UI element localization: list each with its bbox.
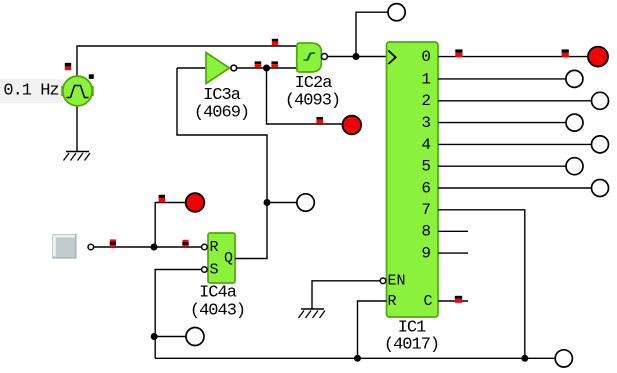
pin label S (IC4a) [210,261,219,278]
wire button to IC4a R [94,246,202,248]
wire IC4a S to bottom rail [155,270,201,359]
wire inverter node to LED D2 [267,68,343,124]
state marker on LED D2 wire [316,117,323,124]
pin label 7 [421,201,431,219]
state marker clock pin [65,63,71,70]
wire IC1 R to bottom rail [358,301,387,358]
wire pin2 to probe [438,100,592,102]
wire C stub [438,300,468,302]
label IC3a [203,86,241,105]
wire Q node to probe [267,202,297,204]
pin label Q (IC4a) [224,250,233,267]
IC4a S bubble [202,267,208,273]
IC4a R bubble [202,244,208,250]
svg-text:1: 1 [421,70,431,88]
svg-text:C: C [423,293,432,310]
wire pin4 to probe [438,143,592,145]
probe pin2 [592,92,609,109]
wire clock bottom to ground [76,106,78,152]
push button S1 [53,235,76,259]
pin label R (IC4a) [210,239,219,256]
pin label 5 [421,158,431,176]
probe pin5 [566,158,583,175]
junction inverter output node [263,65,270,72]
svg-text:R: R [388,293,397,310]
svg-text:IC2a: IC2a [295,74,333,93]
svg-text:IC4a: IC4a [199,284,237,303]
label 0.1 Hz [3,82,58,101]
state marker left of junction [255,61,262,67]
svg-text:(4093): (4093) [285,92,340,111]
pin label 8 [421,223,431,241]
wire pin7 to bottom rail [438,210,525,358]
junction clock node [353,53,360,60]
label highlight background [0,79,63,103]
junction rail pin7 [521,355,528,362]
probe pin4 [592,136,609,153]
NAND schmitt IC2a [297,43,328,72]
svg-text:0.1 Hz: 0.1 Hz [3,82,58,101]
label IC1 [398,319,426,338]
state marker right of junction [271,61,278,67]
state marker pin0 a [455,49,462,57]
pin label C [423,293,432,310]
pin label R [388,293,397,310]
wire S node to probe [155,336,186,338]
svg-text:(4069): (4069) [194,103,249,122]
junction rail R [354,355,361,362]
svg-text:Q: Q [224,250,233,267]
button pin circle [88,244,94,250]
wire node Q-feedback to inverter input [177,68,267,203]
pin label EN [388,273,406,290]
wire pin8 stub [438,230,468,232]
pin label 0 [421,48,431,66]
label (4017) [384,336,439,355]
wire pin6 to probe [438,187,592,189]
LED D2 [343,116,362,135]
probe S node [186,328,204,346]
probe Q [297,194,314,211]
pin label 4 [421,136,431,154]
label IC2a [295,74,333,93]
svg-text:4: 4 [421,136,431,154]
ground (clock) [64,152,91,161]
svg-text:8: 8 [421,223,431,241]
state marker button wire b [182,240,188,247]
wire clock top to IC2a input A [77,46,297,76]
probe pin1 [566,70,583,87]
state marker button wire a [110,239,116,247]
pin label 1 [421,70,431,88]
wire IC2a output to IC1 clock [328,56,387,58]
wire pin0 to LED D1 [438,56,589,58]
wire Q output to node [235,203,267,259]
probe pin6 [592,180,609,197]
junction button node [151,244,158,251]
svg-text:(4043): (4043) [190,302,245,321]
svg-text:2: 2 [421,92,431,110]
junction Q node [264,199,271,206]
pin label 6 [421,179,431,197]
label (4069) [194,103,249,122]
wire pin3 to probe [438,122,566,124]
wire pin9 stub [438,252,468,254]
svg-text:S: S [210,261,219,278]
svg-text:R: R [210,239,219,256]
probe pin (top) [388,4,405,21]
label (4043) [190,302,245,321]
label (4093) [285,92,340,111]
svg-text:IC3a: IC3a [203,86,241,105]
clock source V1 0.1Hz [63,76,93,106]
wire pin1 to probe [438,78,566,80]
wire inverter input stub [177,67,206,69]
svg-text:7: 7 [421,201,431,219]
state marker on clock wire [272,39,278,46]
pin label 2 [421,92,431,110]
svg-text:9: 9 [421,245,431,263]
counter IC1 (4017) [387,42,439,317]
svg-text:5: 5 [421,158,431,176]
probe rail end [555,350,572,367]
wire EN to ground [312,281,380,309]
svg-text:6: 6 [421,179,431,197]
pin label 3 [421,114,431,132]
wire bottom rail [155,357,555,359]
marker black square near clock [89,74,94,79]
wire button node to LED D3 [155,203,186,248]
svg-text:0: 0 [421,48,431,66]
wire clock node to top probe [356,12,388,56]
svg-text:(4017): (4017) [384,336,439,355]
svg-text:3: 3 [421,114,431,132]
label IC4a [199,284,237,303]
LED D3 [186,193,205,212]
state marker pin0 b [562,49,569,57]
inverter IC3a [206,53,237,84]
RS latch IC4a [208,233,235,283]
EN bubble [380,278,386,284]
svg-text:EN: EN [388,273,406,290]
state marker LED D3 wire [159,195,165,203]
state marker pin C [455,296,462,303]
wire inverter output to IC2a input B [237,67,297,69]
pin label 9 [421,245,431,263]
wire pin5 to probe [438,165,566,167]
ground (EN) [299,309,326,318]
probe pin3 [566,114,583,131]
LED D1 [588,47,608,67]
junction S node [151,333,158,340]
